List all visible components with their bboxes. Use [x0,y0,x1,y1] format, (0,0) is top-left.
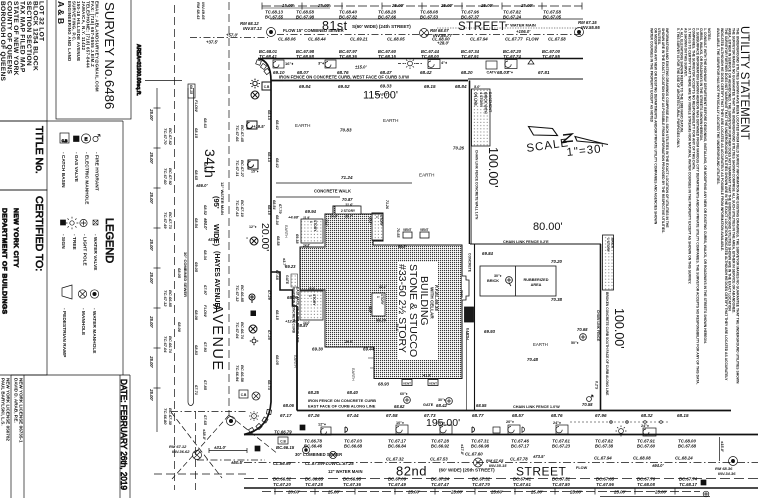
svg-text:BC.67.23: BC.67.23 [552,444,571,449]
1 story annex west [300,291,323,320]
82nd dashed south line [244,478,758,480]
building dimension notes [285,209,468,387]
82nd TC/BC row [274,430,725,456]
svg-text:67.44: 67.44 [347,413,359,418]
svg-text:25.00': 25.00' [149,388,154,401]
C.B box left [278,437,288,444]
svg-text:68.63: 68.63 [203,118,208,129]
svg-text:FAX: (718) 657-8555 J.E/M: FAX: (718) 657-8555 J.E/M.Z [90,1,95,67]
svg-text:CL.67.60: CL.67.60 [465,452,483,457]
svg-text:ENGINEERING AND LAND: ENGINEERING AND LAND [67,1,72,62]
svg-text:68.77: 68.77 [472,413,484,418]
svg-text:70.83: 70.83 [340,128,352,133]
south property line 195.00 [297,410,731,412]
svg-text:BASEMENT: BASEMENT [488,92,492,113]
svg-text:BC.67.05: BC.67.05 [543,15,562,20]
svg-text:BC.66.85: BC.66.85 [305,477,324,482]
svg-text:CERTIFIED TO:: CERTIFIED TO: [33,196,45,271]
legend: light pole symbol [70,221,74,225]
svg-text:+37.5': +37.5' [206,40,219,45]
svg-text:VENT: VENT [429,381,437,385]
81st street north building line [270,18,583,20]
svg-text:- CATCH BASIN: - CATCH BASIN [60,152,66,188]
svg-text:TC.67.49: TC.67.49 [388,482,406,487]
utility statement title [649,26,750,385]
34th avenue median lines [188,88,194,402]
east property line 100.00 upper [469,81,471,245]
corner dash-dot 50.5 [197,459,265,461]
svg-text:- MANHOLE: - MANHOLE [80,308,86,336]
svg-text:30"♦: 30"♦ [438,398,446,402]
svg-text:68.13: 68.13 [267,110,272,121]
svg-text:2 STORY: 2 STORY [341,209,356,213]
svg-text:1: 1 [308,295,312,297]
svg-text:SURVEYING, P.C.: SURVEYING, P.C. [72,1,77,42]
vent boxes north [403,232,412,238]
svg-text:C.B: C.B [241,393,247,397]
svg-text:80.00': 80.00' [533,221,563,233]
svg-text:33.6': 33.6' [368,306,372,313]
svg-text:CL.67.25: CL.67.25 [336,461,354,466]
svg-text:- SIGN: - SIGN [60,234,66,249]
svg-text:29.7': 29.7' [344,215,353,219]
avenue water valve mid [250,237,258,245]
svg-text:TC.67.49: TC.67.49 [163,212,168,229]
82nd centerline extension dashes [171,411,248,413]
corner dimension notes [169,429,244,465]
building label box [398,262,438,360]
legend: catch basin symbol C.B [60,133,69,143]
svg-text:68.87: 68.87 [297,323,309,328]
svg-text:67.81: 67.81 [538,70,550,75]
svg-text:STORY: STORY [379,215,383,227]
building south edge detail [368,358,374,368]
svg-text:CL.68.44: CL.68.44 [308,37,326,42]
svg-text:TC.67.61: TC.67.61 [513,482,531,487]
svg-text:AREA=31000.00sq.ft.: AREA=31000.00sq.ft. [135,44,141,96]
svg-text:BC.66.15: BC.66.15 [276,445,295,450]
catch basin 4 [556,425,568,434]
svg-text:25.00': 25.00' [407,490,421,495]
svg-text:60"♦: 60"♦ [400,392,408,396]
svg-text:CL.68.06: CL.68.06 [278,37,296,42]
svg-text:1: 1 [375,216,379,218]
svg-text:BC.67.51: BC.67.51 [552,477,571,482]
svg-text:69.93: 69.93 [484,329,496,334]
sign symbol 82nd [472,427,475,433]
svg-text:14.8': 14.8' [303,244,310,248]
svg-text:68.07: 68.07 [497,70,509,75]
avenue water valve lower [249,325,257,333]
svg-text:68.05: 68.05 [177,268,182,279]
light pole 82nd east [619,429,624,434]
svg-text:67.79: 67.79 [278,204,282,214]
svg-text:68.62: 68.62 [394,404,405,409]
corner construction diagonals [172,415,229,479]
svg-text:±38.0': ±38.0' [202,429,207,441]
svg-text:LEGEND: LEGEND [103,218,115,263]
svg-text:CL.67.94: CL.67.94 [470,37,488,42]
svg-text:68.76: 68.76 [551,413,563,418]
svg-text:NEW YORK LICENSE 050782: NEW YORK LICENSE 050782 [6,378,11,441]
west property line iron fence [296,306,298,411]
svg-text:EARTH: EARTH [284,225,288,238]
81st/34th corner curb arc [258,59,271,82]
legend panel border [47,121,123,375]
rear yard north fence 80.00 [470,243,601,245]
svg-text:4 STORY: 4 STORY [479,92,483,108]
avenue gas valve [251,311,256,316]
svg-text:TC.67.04: TC.67.04 [235,322,240,339]
svg-text:CL.66.99: CL.66.99 [273,461,291,466]
svg-text:±15.0': ±15.0' [355,65,367,70]
svg-text:TC.66.94: TC.66.94 [235,365,240,382]
svg-text:1: 1 [376,296,380,298]
svg-text:67.97: 67.97 [203,285,208,296]
building #33-50 main hatched mass [300,206,462,379]
avenue east curb rotated TC/BC [235,110,280,391]
interior fence line below neighbor [474,244,476,410]
svg-text:68.34: 68.34 [203,250,208,261]
svg-text:71.24: 71.24 [341,175,353,180]
svg-text:20.00': 20.00' [287,490,301,495]
legend: pedestrian ramp symbol [62,285,72,299]
82nd/34th corner curb arc [244,402,271,435]
svg-text:TC.67.04: TC.67.04 [163,336,168,353]
svg-text:67.29: 67.29 [267,290,272,301]
rear east property line 100.00 [600,244,602,411]
svg-text:FLOW 15" COMBINED SEWER: FLOW 15" COMBINED SEWER [283,28,344,33]
avenue catch basin SW [246,237,248,239]
svg-text:68.08: 68.08 [194,310,199,321]
svg-text:14.8': 14.8' [330,215,338,219]
svg-text:#33-50 2½ STORY: #33-50 2½ STORY [396,264,408,353]
svg-text:FLOW: FLOW [203,305,208,318]
81st street second line [262,7,330,9]
CATV box [486,61,497,69]
82nd street name labels [396,464,567,479]
34th avenue west dimension labels [149,108,173,425]
svg-text:CL.67.77: CL.67.77 [505,37,523,42]
svg-text:S(60' WIDE) (24th STREET): S(60' WIDE) (24th STREET) [352,24,411,29]
svg-text:25.00': 25.00' [440,3,454,8]
svg-text:INV.36.62: INV.36.62 [172,449,190,454]
svg-text:69.94: 69.94 [305,209,317,214]
svg-text:TC.67.80: TC.67.80 [552,482,570,487]
svg-text:68.15: 68.15 [267,205,272,216]
svg-text:67.17: 67.17 [280,413,292,418]
svg-text:68.40: 68.40 [347,390,359,395]
svg-text:25.00': 25.00' [317,3,331,8]
svg-text:20.00': 20.00' [259,223,271,251]
legend: fire hydrant symbol [93,136,98,141]
catch basin 1 [396,425,408,434]
svg-text:F.F.EL.69.35: F.F.EL.69.35 [434,285,439,311]
svg-text:BC.67.37: BC.67.37 [461,15,480,20]
svg-text:EARTH: EARTH [383,118,399,123]
svg-text:68.15: 68.15 [189,85,193,95]
svg-text:68.34: 68.34 [275,215,280,226]
manhole at SW corner [227,417,236,426]
svg-text:FLOW: FLOW [194,100,199,113]
tree 82nd west [404,397,411,404]
8 inch water main dotted line [437,27,583,29]
svg-text:BC.67.66: BC.67.66 [378,15,397,20]
svg-text:TAX MAP FILED MAP: TAX MAP FILED MAP [18,1,25,73]
81st street dimension line [262,5,582,7]
svg-text:68.58: 68.58 [276,236,280,246]
vent boxes south [402,380,412,386]
scale bar Z mark [563,134,573,142]
svg-text:67.85: 67.85 [203,380,208,391]
34th avenue centerline dashed [228,2,230,415]
svg-text:BC.67.32: BC.67.32 [472,477,491,482]
svg-text:16"♦: 16"♦ [285,61,293,66]
svg-text:C.B: C.B [264,85,270,89]
svg-text:68.83: 68.83 [194,345,199,356]
svg-text:68.93: 68.93 [378,382,390,387]
svg-text:25.00': 25.00' [613,490,627,495]
svg-text:25.00': 25.00' [520,3,534,8]
manhole water 82nd [302,446,309,453]
svg-text:BC.66.95: BC.66.95 [343,477,362,482]
81st street sewer centerline [190,37,268,39]
catch basin 81st mid [428,60,440,69]
svg-text:68.06: 68.06 [283,403,295,408]
svg-text:BC.67.27: BC.67.27 [240,160,245,178]
bay window east [462,276,469,300]
34th avenue west street line [156,88,158,432]
left end symbols near corner [252,414,257,419]
concrete strip east of building [466,253,472,340]
tree in brick area [506,277,513,284]
svg-text:70.26: 70.26 [453,146,465,151]
svg-text:STORY: STORY [380,294,384,306]
catch basin box avenue upper [247,121,257,129]
svg-text:8" WATER MAIN: 8" WATER MAIN [505,23,536,28]
svg-text:24"♦: 24"♦ [641,424,649,428]
34th avenue lane dashed line west [174,5,176,490]
legend: manhole symbol [78,290,86,298]
svg-text:68.15: 68.15 [677,413,689,418]
svg-text:CATV: CATV [486,71,497,75]
svg-text:BC.66.85: BC.66.85 [240,285,245,303]
water valve triangle 81st [528,60,534,65]
svg-text:CL.67.78: CL.67.78 [510,457,528,462]
svg-text:SECTION SECTION: SECTION SECTION [25,1,32,66]
svg-text:0.2'S: 0.2'S [595,381,599,390]
chain link fence note east rotated [475,150,479,220]
svg-text:BC.67.38: BC.67.38 [595,444,614,449]
svg-text:70.55: 70.55 [396,228,400,238]
svg-text:25.00': 25.00' [149,238,154,251]
svg-text:5. THIS SURVEY IS FOR THE USE: 5. THIS SURVEY IS FOR THE USE OF ARCHITE… [676,28,680,148]
legend: gas valve symbol [74,136,80,142]
svg-text:69.30: 69.30 [312,347,324,352]
svg-text:A & B: A & B [56,1,66,24]
avenue symbols: catch basin at 81st corner [262,82,271,90]
svg-text:25.00': 25.00' [450,490,464,495]
svg-text:BC.67.09: BC.67.09 [388,477,407,482]
svg-text:BC.67.55: BC.67.55 [265,15,284,20]
82nd street spot elevation row [280,390,689,418]
svg-text:68.25: 68.25 [308,390,320,395]
catch basin 81st east [505,60,517,69]
svg-text:- TREE: - TREE [71,234,77,251]
svg-text:BC.67.68: BC.67.68 [678,444,697,449]
svg-text:69.44: 69.44 [363,347,375,352]
svg-text:SHOWN ARE IN THE EXACT LOCATIO: SHOWN ARE IN THE EXACT LOCATION ONLY AS … [661,28,665,233]
svg-text:BC.66.58: BC.66.58 [240,365,245,383]
svg-text:VENT: VENT [420,228,429,232]
svg-text:TC.68.08: TC.68.08 [637,482,655,487]
svg-text:68.73: 68.73 [267,380,272,391]
svg-text:STONE & STUCCO: STONE & STUCCO [407,264,419,357]
svg-text:68.20: 68.20 [461,70,473,75]
svg-text:25.00': 25.00' [149,315,154,328]
svg-text:68.15: 68.15 [194,128,199,139]
scale bar arrow [575,137,608,145]
svg-text:67.25: 67.25 [267,330,272,341]
svg-text:68.42: 68.42 [436,403,448,408]
svg-text:70.38: 70.38 [551,297,563,302]
svg-text:68.13: 68.13 [267,152,272,163]
svg-text:TC.68.17: TC.68.17 [679,482,697,487]
svg-text:E: E [84,137,87,142]
svg-text:BC.67.45: BC.67.45 [240,125,245,143]
svg-text:68.00: 68.00 [177,322,182,333]
boxed elevation 68.15 [188,84,195,98]
svg-text:EMAIL: ABLANDSURVEY@GMAIL.COM: EMAIL: ABLANDSURVEY@GMAIL.COM [95,1,100,92]
svg-text:RM 68.43: RM 68.43 [196,2,201,20]
stoop hatched [465,307,474,322]
legend: water manhole symbol [90,290,98,298]
svg-text:1: 1 [309,221,313,223]
concrete walk lines [276,183,412,197]
svg-text:±56.0': ±56.0' [196,183,208,188]
82nd street gate and trees row [394,392,560,409]
svg-text:TC.67.28: TC.67.28 [305,482,323,487]
82nd BC/TC bottom row [273,477,698,488]
svg-text:EARTH: EARTH [466,328,470,340]
82nd bottom curb line [244,487,758,489]
svg-text:20"♦: 20"♦ [506,420,514,424]
svg-text:WITH CELLAR: WITH CELLAR [430,287,435,319]
svg-text:11.9': 11.9' [303,216,310,220]
svg-text:VENT: VENT [403,228,412,232]
svg-text:68.32: 68.32 [641,413,653,418]
svg-text:CHAIN LINK FENCE CONCRETE WAL: CHAIN LINK FENCE CONCRETE WALL 1.0'N [475,150,479,220]
svg-text:BC.66.68: BC.66.68 [344,444,363,449]
svg-text:BROKEN CONCRETE CURB SOUTH FA: BROKEN CONCRETE CURB SOUTH FACE OF CURB … [605,292,609,396]
signature box [11,375,130,498]
svg-text:CL.68.08: CL.68.08 [633,456,651,461]
title block: surveyor A & B info box [56,0,131,119]
tree rear east [580,334,587,341]
svg-text:(HAYES AVENUE): (HAYES AVENUE) [213,251,220,309]
svg-text:CHAIN LINK FENCE 1.0'W: CHAIN LINK FENCE 1.0'W [513,405,560,409]
svg-text:5.0': 5.0' [474,85,480,89]
svg-text:NEW YORK CITY: NEW YORK CITY [12,208,19,268]
svg-text:13.6': 13.6' [324,219,328,226]
svg-text:25.00': 25.00' [490,490,504,495]
81st street south curb line [258,58,583,60]
certified to box [0,190,47,375]
corner pedestrian ramp squares bottom [248,409,271,433]
svg-text:INV.34.36: INV.34.36 [718,471,736,476]
avenue mid catch basin [248,160,258,169]
svg-text:RUBBERIZED: RUBBERIZED [524,278,549,282]
svg-text:69.33: 69.33 [380,84,392,89]
svg-text:TC.66.80: TC.66.80 [163,408,168,425]
svg-text:TC.67.66: TC.67.66 [235,125,240,142]
neighbor 1 story brick rear [603,235,614,290]
svg-text:67.71: 67.71 [194,385,199,396]
82nd street north curb [244,434,758,436]
svg-text:±73.5': ±73.5' [533,454,545,459]
svg-text:68.84: 68.84 [455,84,467,89]
svg-text:54.4': 54.4' [395,324,399,332]
svg-text:TC.67.96: TC.67.96 [596,482,614,487]
catch basin 5 [643,428,656,436]
manhole 82nd center [474,458,483,467]
title block: borough/county info box [0,0,47,121]
svg-text:EARTH: EARTH [533,342,548,347]
100.00 east dimension label [486,147,500,188]
svg-text:BC.67.24: BC.67.24 [503,15,522,20]
svg-text:BC.67.65: BC.67.65 [596,477,615,482]
svg-text:BC.66.74: BC.66.74 [168,336,173,354]
svg-text:CONCRETE: CONCRETE [468,253,472,273]
81st street line east of property [468,78,583,80]
svg-text:71.26: 71.26 [385,200,389,210]
svg-text:AREA: AREA [531,283,542,287]
svg-text:±94.0': ±94.0' [203,218,208,230]
svg-text:+106.0': +106.0' [516,29,531,34]
svg-text:70.48: 70.48 [527,357,539,362]
svg-text:25.00': 25.00' [569,490,583,495]
svg-text:25.00': 25.00' [530,490,544,495]
svg-text:- GAS VALVE: - GAS VALVE [73,152,79,183]
svg-text:- WATER MANHOLE: - WATER MANHOLE [91,308,97,354]
82nd CL row [273,452,736,477]
svg-text:AVENUE: AVENUE [209,304,225,372]
water valve near corner [251,91,259,99]
light pole near corner [253,81,257,85]
svg-text:68.57: 68.57 [512,413,524,418]
svg-text:67.65: 67.65 [203,415,208,426]
svg-text:±15.0': ±15.0' [720,441,725,453]
median rounded cap [188,402,194,406]
svg-text:ON LINE: ON LINE [474,92,478,106]
svg-text:25.00': 25.00' [149,191,154,204]
catch basin 3 with pole [508,425,520,434]
svg-text:FLOW: FLOW [526,37,540,42]
svg-text:TC.66.79: TC.66.79 [274,430,292,435]
svg-text:53.8': 53.8' [398,245,406,249]
svg-text:- LIGHT POLE: - LIGHT POLE [82,234,88,267]
svg-text:BC.67.60: BC.67.60 [637,444,656,449]
svg-text:- ELECTRIC MANHOLE: - ELECTRIC MANHOLE [84,152,90,205]
svg-text:TC.67.70: TC.67.70 [472,482,490,487]
svg-text:BC.66.92: BC.66.92 [431,444,450,449]
svg-text:BC.66.74: BC.66.74 [240,322,245,340]
light pole 81st [408,61,413,66]
81st street curb symbols [273,60,284,68]
82nd extra south line [600,496,710,498]
svg-text:C.B: C.B [280,440,286,444]
svg-text:TC.67.12: TC.67.12 [235,285,240,302]
